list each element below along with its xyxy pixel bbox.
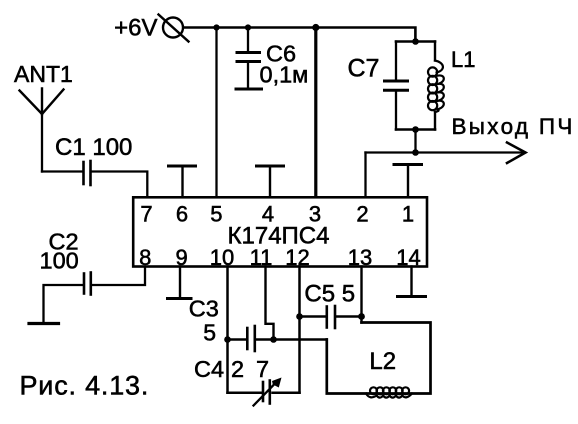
svg-text:100: 100 bbox=[40, 248, 79, 274]
inductor L2 loop bbox=[327, 323, 431, 398]
svg-text:2: 2 bbox=[356, 201, 368, 226]
svg-text:6: 6 bbox=[176, 201, 188, 226]
wire pin 3 to supply bbox=[314, 28, 317, 198]
svg-text:L2: L2 bbox=[369, 348, 396, 375]
svg-text:+6V: +6V bbox=[114, 15, 157, 42]
svg-text:9: 9 bbox=[175, 245, 187, 270]
wire supply rail bbox=[184, 28, 415, 42]
wire pin 13 down bbox=[360, 267, 362, 323]
svg-text:0,1м: 0,1м bbox=[260, 62, 309, 88]
node pin10/C3 junction bbox=[224, 336, 231, 343]
svg-text:13: 13 bbox=[348, 245, 372, 270]
svg-text:7: 7 bbox=[256, 356, 269, 382]
svg-text:11: 11 bbox=[250, 245, 273, 270]
ground for C2 bbox=[29, 322, 59, 325]
capacitor C5 5 bbox=[300, 281, 362, 329]
wire C1 to pin 7 bbox=[92, 172, 148, 198]
wire antenna to C1 bbox=[42, 170, 83, 172]
svg-text:L1: L1 bbox=[451, 47, 475, 72]
node output junction bbox=[412, 149, 419, 156]
svg-text:7: 7 bbox=[140, 201, 152, 226]
wire pin 10 down bbox=[226, 267, 229, 393]
capacitor C4 2 7 variable bbox=[194, 356, 300, 406]
op-amp U1 К174ПС4 IC body bbox=[133, 197, 427, 266]
svg-text:10: 10 bbox=[210, 245, 234, 270]
capacitor C2 100 bbox=[40, 229, 91, 295]
wire tank bottom edge bbox=[396, 128, 435, 131]
svg-text:5: 5 bbox=[203, 320, 216, 346]
svg-text:1: 1 bbox=[402, 201, 414, 226]
wire pin 11 jog down bbox=[266, 267, 274, 340]
wire tank to output line bbox=[414, 130, 416, 153]
node C3/pin11 junction bbox=[270, 336, 277, 343]
node tank top feed bbox=[412, 38, 419, 45]
svg-text:5: 5 bbox=[210, 201, 222, 226]
capacitor C7 bbox=[348, 42, 408, 130]
antenna ANT1 bbox=[14, 61, 73, 172]
svg-text:К174ПС4: К174ПС4 bbox=[228, 222, 330, 249]
inductor L1 bbox=[428, 42, 475, 130]
capacitor C3 5 bbox=[189, 296, 274, 352]
node supply/pin5 junction bbox=[213, 24, 219, 30]
wire tank top edge bbox=[396, 40, 435, 43]
ground under C6 bbox=[236, 88, 262, 91]
power terminal +6V bbox=[114, 15, 188, 42]
wire C3 junction to L2 left edge bbox=[274, 338, 327, 340]
svg-text:C5 5: C5 5 bbox=[304, 281, 355, 308]
svg-text:3: 3 bbox=[309, 201, 321, 226]
wire output Выход ПЧ with arrow bbox=[366, 114, 575, 163]
capacitor C6 0,1м bbox=[237, 28, 308, 89]
svg-text:C7: C7 bbox=[348, 55, 380, 83]
svg-text:C1 100: C1 100 bbox=[55, 134, 132, 161]
ground stub below pin 9 bbox=[168, 267, 192, 299]
wire pin 12 down bbox=[298, 267, 301, 393]
svg-text:14: 14 bbox=[396, 245, 420, 270]
svg-text:4: 4 bbox=[262, 201, 274, 226]
ground stub above pin 1 bbox=[394, 165, 422, 198]
svg-text:Выход ПЧ: Выход ПЧ bbox=[452, 114, 575, 139]
svg-text:ANT1: ANT1 bbox=[14, 61, 73, 87]
ground stub above pin 4 bbox=[257, 166, 284, 197]
wire C2 to ground bbox=[44, 285, 84, 323]
node tank bottom bbox=[412, 126, 419, 133]
wire pin 5 to supply bbox=[215, 28, 217, 198]
svg-text:Рис. 4.13.: Рис. 4.13. bbox=[20, 371, 150, 401]
node supply/pin3 junction bbox=[312, 24, 319, 31]
wire pin 2 to output line bbox=[364, 153, 366, 198]
svg-text:12: 12 bbox=[285, 245, 309, 270]
ground stub below pin 14 bbox=[398, 267, 426, 297]
svg-text:C3: C3 bbox=[189, 296, 219, 322]
capacitor C1 100 bbox=[55, 134, 132, 185]
ground stub above pin 6 bbox=[169, 166, 196, 197]
node C5/pin13 junction bbox=[358, 313, 365, 320]
node supply/C6 junction bbox=[245, 24, 251, 30]
svg-text:C4: C4 bbox=[194, 356, 224, 382]
node pin12/C5 junction bbox=[296, 313, 303, 320]
svg-text:2: 2 bbox=[231, 356, 244, 382]
wire pin 8 to C2 bbox=[92, 267, 146, 286]
